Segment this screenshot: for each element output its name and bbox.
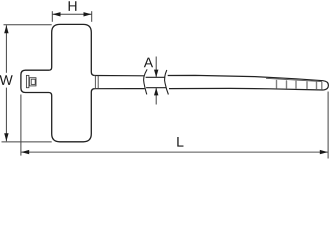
strap tooth tick 1 (276, 81, 278, 88)
label H (69, 1, 77, 11)
head inner detail: middle square (29, 78, 36, 86)
dimension A upper line (155, 57, 157, 78)
dimension L extension line left (20, 95, 22, 156)
strap section top edge between breaks (146, 76, 166, 78)
dimension W line lower (5, 88, 7, 142)
strap bottom edge (right of break) (169, 88, 324, 90)
dimension A arrow up (154, 88, 158, 96)
dimension W extension line top (4, 24, 52, 26)
dimension H extension line left (51, 11, 53, 22)
strap tooth tick 2 (286, 81, 288, 88)
dimension L line (21, 151, 328, 153)
dimension W arrow down (4, 133, 8, 141)
dimension W extension line bottom (2, 141, 52, 143)
strap section bottom edge between breaks (146, 87, 166, 89)
label A (144, 58, 153, 68)
dimension A lower line (155, 88, 157, 105)
strap top edge (left of break) (95, 75, 145, 77)
label L (177, 137, 183, 147)
break mark left (144, 69, 148, 94)
strap bottom edge (left of break) (95, 88, 145, 90)
break mark right (165, 70, 169, 95)
dimension H extension line right (91, 11, 93, 22)
strap tooth tick 3 (295, 81, 297, 88)
dimension W arrow up (4, 25, 8, 33)
dimension W line upper (5, 25, 7, 73)
strap tip (323, 81, 328, 90)
strap top edge (right of break) (168, 75, 323, 80)
dimension L arrow right (320, 150, 328, 154)
label W (0, 75, 13, 85)
strap tooth tick 4 (306, 82, 308, 89)
dimension L extension line right (327, 92, 329, 159)
dimension H line (52, 13, 91, 15)
cable tie outline: head + marker plate + strap root (21, 24, 95, 141)
dimension A arrow down (154, 70, 158, 78)
strap inner line near tip (266, 78, 322, 81)
strap neck tick 2 (97, 76, 99, 89)
strap tooth tick 5 (316, 82, 318, 89)
strap neck tick 1 (94, 76, 96, 89)
head inner detail: inner square (31, 79, 35, 84)
head inner detail: outer tall rect (26, 75, 29, 87)
dimension H arrow right (84, 12, 92, 16)
dimension H arrow left (53, 12, 61, 16)
dimension L arrow left (21, 150, 29, 154)
strap tooth tick 6 (321, 82, 323, 88)
